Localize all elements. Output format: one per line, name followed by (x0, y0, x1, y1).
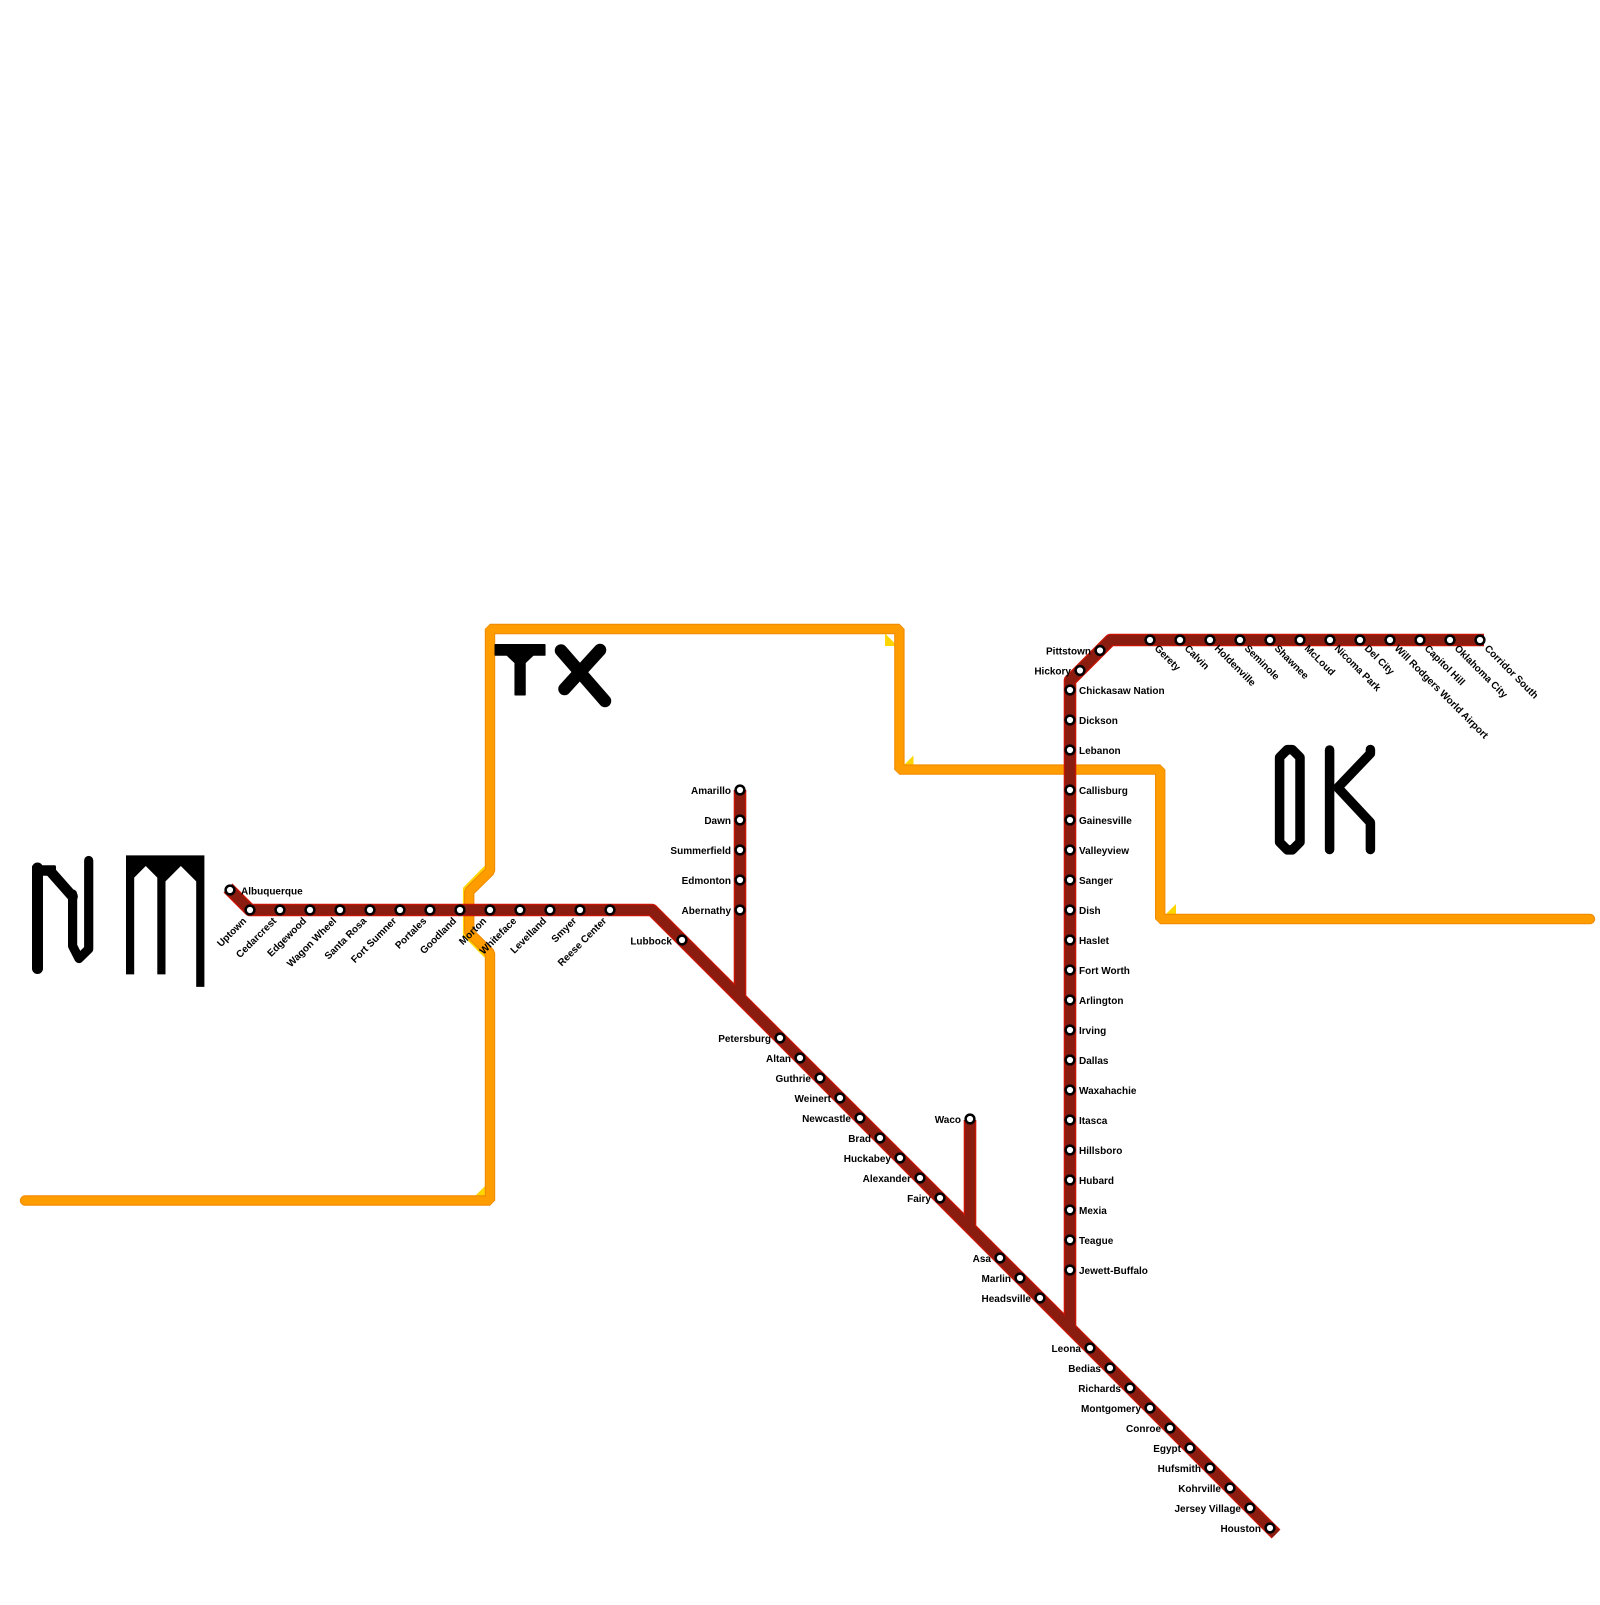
station dots (226, 636, 1485, 1533)
svg-text:Summerfield: Summerfield (670, 846, 731, 857)
svg-text:Brad: Brad (848, 1134, 871, 1145)
svg-text:Alexander: Alexander (863, 1174, 911, 1185)
red line edges (228, 888, 1276, 1534)
svg-text:Teague: Teague (1079, 1236, 1114, 1247)
OK letters (1280, 750, 1371, 850)
svg-text:Hufsmith: Hufsmith (1158, 1464, 1201, 1475)
svg-text:Dawn: Dawn (704, 816, 731, 827)
svg-text:Altan: Altan (766, 1054, 791, 1065)
svg-text:Jersey Village: Jersey Village (1174, 1504, 1241, 1515)
svg-text:Kohrville: Kohrville (1178, 1484, 1221, 1495)
svg-text:Jewett-Buffalo: Jewett-Buffalo (1079, 1266, 1148, 1277)
svg-text:Asa: Asa (973, 1254, 992, 1265)
svg-text:Headsville: Headsville (982, 1294, 1032, 1305)
svg-text:Callisburg: Callisburg (1079, 786, 1128, 797)
svg-text:Waxahachie: Waxahachie (1079, 1086, 1137, 1097)
svg-text:Montgomery: Montgomery (1081, 1404, 1141, 1415)
gold corner accents (885, 634, 898, 647)
svg-text:Weinert: Weinert (795, 1094, 832, 1105)
NM letters (32, 865, 56, 876)
svg-text:Hickory: Hickory (1034, 667, 1071, 678)
station labels (215, 643, 1540, 1535)
svg-text:Pittstown: Pittstown (1046, 647, 1091, 658)
svg-text:Sanger: Sanger (1079, 876, 1113, 887)
svg-text:Itasca: Itasca (1079, 1116, 1108, 1127)
svg-text:Newcastle: Newcastle (802, 1114, 851, 1125)
svg-text:Leona: Leona (1052, 1344, 1082, 1355)
svg-text:Lubbock: Lubbock (630, 937, 672, 948)
svg-text:Dish: Dish (1079, 906, 1101, 917)
svg-text:Albuquerque: Albuquerque (241, 887, 303, 898)
svg-text:Mexia: Mexia (1079, 1206, 1107, 1217)
red line fills (228, 888, 1276, 1534)
svg-text:Hubard: Hubard (1079, 1176, 1114, 1187)
svg-text:Houston: Houston (1220, 1524, 1261, 1535)
svg-text:Valleyview: Valleyview (1079, 846, 1129, 857)
svg-text:Conroe: Conroe (1126, 1424, 1161, 1435)
svg-text:Gainesville: Gainesville (1079, 816, 1132, 827)
svg-text:Petersburg: Petersburg (718, 1034, 771, 1045)
svg-text:Richards: Richards (1078, 1384, 1121, 1395)
svg-text:Dallas: Dallas (1079, 1056, 1109, 1067)
gold NM/TX border jog underlay (468, 869, 488, 955)
svg-text:Hillsboro: Hillsboro (1079, 1146, 1122, 1157)
state border: NM/TX/OK outline (25, 629, 1590, 1201)
svg-text:Irving: Irving (1079, 1026, 1106, 1037)
svg-text:Arlington: Arlington (1079, 996, 1123, 1007)
svg-text:Amarillo: Amarillo (691, 786, 731, 797)
svg-text:Huckabey: Huckabey (844, 1154, 892, 1165)
svg-text:Haslet: Haslet (1079, 936, 1110, 947)
svg-text:Abernathy: Abernathy (682, 906, 732, 917)
svg-text:Guthrie: Guthrie (775, 1074, 811, 1085)
TX letters (495, 645, 545, 695)
svg-text:Edmonton: Edmonton (682, 876, 731, 887)
svg-text:Fort Worth: Fort Worth (1079, 966, 1130, 977)
svg-text:Egypt: Egypt (1153, 1444, 1181, 1455)
svg-text:Bedias: Bedias (1068, 1364, 1101, 1375)
svg-text:Lebanon: Lebanon (1079, 746, 1121, 757)
svg-text:Marlin: Marlin (982, 1274, 1011, 1285)
svg-text:Dickson: Dickson (1079, 716, 1118, 727)
svg-text:Chickasaw Nation: Chickasaw Nation (1079, 686, 1165, 697)
svg-text:Fairy: Fairy (907, 1194, 931, 1205)
svg-text:Waco: Waco (935, 1115, 961, 1126)
